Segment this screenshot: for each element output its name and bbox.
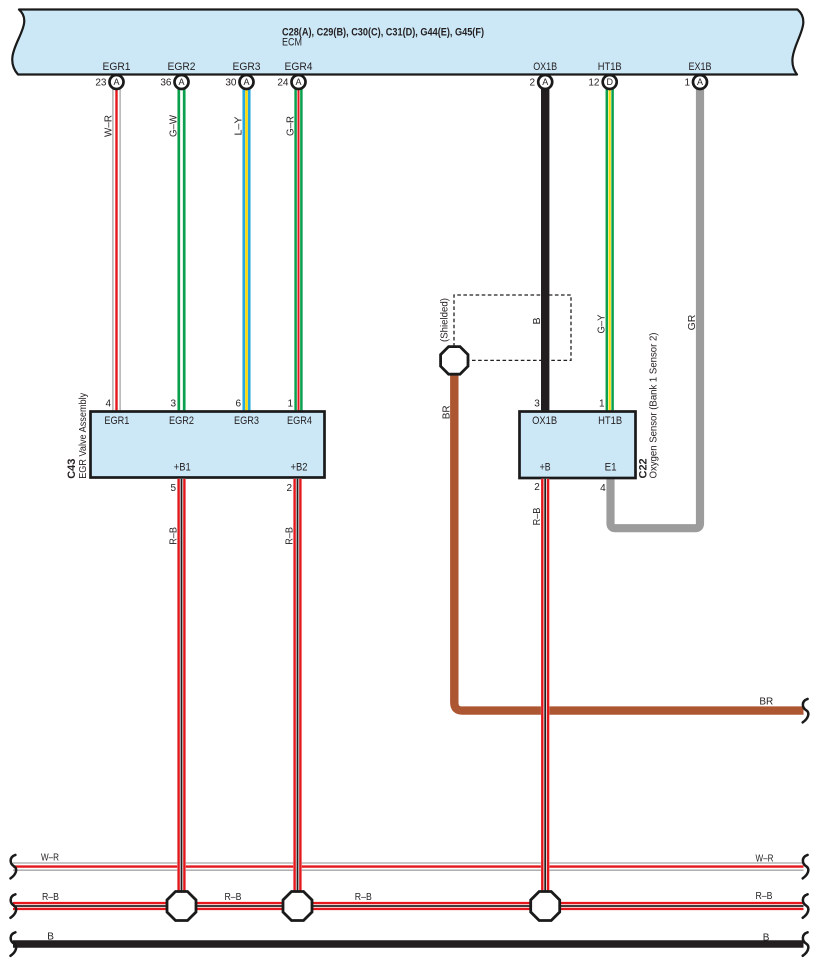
svg-text:+B1: +B1 [174,461,191,473]
svg-text:A: A [243,77,249,87]
svg-text:2: 2 [286,483,292,494]
svg-text:EGR Valve Assembly: EGR Valve Assembly [78,393,89,479]
svg-text:G–W: G–W [167,115,179,137]
svg-text:B: B [531,317,543,324]
wire break symbol BR right [803,699,809,723]
bus label R-B right [756,891,773,902]
svg-text:36: 36 [160,77,172,88]
wire label BR vertical [441,405,452,419]
pin 1 circle A (EX1B) [684,75,707,89]
svg-text:A: A [295,77,301,87]
svg-text:12: 12 [588,77,600,88]
svg-text:EGR1: EGR1 [103,61,131,73]
svg-text:5: 5 [170,483,176,494]
pin 2 circle A (OX1B) [529,75,552,89]
wire label GR [686,314,698,330]
bus label R-B mid2 [355,892,372,903]
label (Shielded) [440,298,451,342]
wire GR EX1B to E1 [611,89,701,528]
svg-text:W–R: W–R [41,853,59,864]
junction octagon J1 (+B1 to R-B bus) [167,892,196,921]
ECM pin label EX1B [689,61,712,73]
bus label R-B mid1 [225,892,242,903]
bus W-R horizontal [13,863,804,870]
svg-text:EGR4: EGR4 [285,61,313,73]
svg-text:R–B: R–B [531,508,543,526]
bus label B right [763,932,770,943]
C43 name labels [66,393,89,479]
svg-text:2: 2 [529,77,535,88]
svg-text:EGR2: EGR2 [168,61,196,73]
svg-text:C22: C22 [637,458,649,478]
svg-text:4: 4 [105,399,111,410]
wire G-Y HT1B vertical [607,89,613,410]
ECM connector band [12,10,803,75]
svg-text:3: 3 [170,399,176,410]
svg-text:30: 30 [225,77,237,88]
svg-text:HT1B: HT1B [598,61,622,73]
shield ground node octagon [441,347,468,375]
pin 24 circle A (EGR4) [277,75,305,89]
svg-text:Oxygen Sensor (Bank 1 Sensor 2: Oxygen Sensor (Bank 1 Sensor 2) [649,333,660,479]
ECM pin label OX1B [533,61,557,73]
wire break symbol B right [803,932,809,956]
bus label W-R right [756,853,774,864]
svg-text:L–Y: L–Y [232,117,244,136]
svg-text:D: D [606,77,613,87]
wire label G-Y [596,315,608,334]
wire R-B from +B1 [179,479,185,906]
svg-text:+B2: +B2 [291,461,308,473]
svg-text:24: 24 [277,77,289,88]
bus label B left [47,932,54,943]
connector C22 Oxygen Sensor box [520,412,636,479]
junction octagon J3 (+B to R-B bus) [531,892,560,921]
svg-text:EX1B: EX1B [689,61,712,73]
svg-text:A: A [697,77,703,87]
svg-text:OX1B: OX1B [533,61,557,73]
wire G-R EGR4 vertical [296,89,302,410]
wire B OX1B vertical (shielded core) [541,89,549,410]
wire label R-B (+B2) [284,527,296,545]
svg-text:R–B: R–B [756,891,773,902]
ECM pin label EGR3 [233,61,261,73]
ECM pin label EGR4 [285,61,313,73]
svg-text:GR: GR [686,314,698,330]
svg-text:G–R: G–R [284,116,296,136]
svg-text:R–B: R–B [225,892,242,903]
C22 box pin labels [532,415,622,473]
wire break symbol R-B left [11,894,17,918]
svg-text:R–B: R–B [355,892,372,903]
bus label R-B left [42,892,59,903]
wire R-B from +B2 [295,479,301,906]
svg-text:W–R: W–R [756,853,774,864]
wire label R-B (+B1) [168,527,180,545]
svg-text:EGR4: EGR4 [287,415,312,427]
svg-text:EGR1: EGR1 [104,415,129,427]
svg-text:G–Y: G–Y [596,315,608,334]
wire label B [531,317,543,324]
pin 23 circle A (EGR1) [95,75,123,89]
svg-text:EGR3: EGR3 [233,61,261,73]
ECM title text [282,27,484,49]
svg-text:6: 6 [235,399,241,410]
bus R-B horizontal [13,903,804,909]
svg-text:A: A [542,77,548,87]
svg-text:B: B [763,932,770,943]
shield dashed outline [454,295,571,360]
wire BR shield drain [454,373,803,711]
svg-text:4: 4 [600,483,606,494]
C22 name labels [637,333,659,479]
wire break symbol B left [11,932,17,956]
svg-text:EGR3: EGR3 [234,415,259,427]
wire break symbol R-B right [803,894,809,918]
C43 pin numbers [105,399,293,495]
junction octagon J2 (+B2 to R-B bus) [283,892,312,921]
svg-text:BR: BR [759,697,773,708]
svg-text:1: 1 [599,399,605,410]
bus B horizontal (ground) [13,940,804,947]
svg-text:B: B [47,932,54,943]
svg-text:W–R: W–R [102,115,114,137]
C22 pin numbers [534,399,606,495]
svg-text:A: A [113,77,119,87]
svg-text:BR: BR [441,405,452,419]
wire R-B from +B of C22 [542,479,548,906]
svg-text:C28(A), C29(B), C30(C), C31(D): C28(A), C29(B), C30(C), C31(D), G44(E), … [282,27,484,39]
wire W-R EGR1 vertical [113,89,120,410]
svg-text:E1: E1 [605,461,617,473]
ECM pin label EGR2 [168,61,196,73]
svg-text:2: 2 [534,482,540,493]
ECM pin label HT1B [598,61,622,73]
wire label R-B (+B) [531,508,543,526]
svg-text:R–B: R–B [284,527,296,545]
svg-text:(Shielded): (Shielded) [440,298,451,342]
svg-text:A: A [178,77,184,87]
pin 12 circle D (HT1B) [588,75,616,89]
wire label G-R [284,116,296,136]
wire break symbol W-R right [803,855,809,879]
wire break symbol W-R left [11,855,17,879]
wire label G-W [167,115,179,137]
svg-text:R–B: R–B [168,527,180,545]
svg-text:OX1B: OX1B [532,415,557,427]
C43 box pin labels [104,415,312,473]
bus label BR right [759,697,773,708]
connector C43 EGR Valve Assembly box [91,412,325,478]
svg-text:R–B: R–B [42,892,59,903]
svg-text:C43: C43 [66,459,78,479]
wire label W-R [102,115,114,137]
wire G-W EGR2 vertical [179,89,184,410]
svg-text:1: 1 [684,77,690,88]
svg-text:ECM: ECM [282,37,302,49]
pin 30 circle A (EGR3) [225,75,253,89]
svg-text:HT1B: HT1B [598,415,622,427]
wire label L-Y [232,117,244,136]
wire L-Y EGR3 vertical [244,89,249,410]
svg-text:1: 1 [287,399,293,410]
pin 36 circle A (EGR2) [160,75,188,89]
svg-text:EGR2: EGR2 [169,415,194,427]
svg-text:3: 3 [534,399,540,410]
svg-text:23: 23 [95,77,107,88]
svg-text:+B: +B [540,461,551,473]
bus label W-R left [41,853,59,864]
ECM pin label EGR1 [103,61,131,73]
